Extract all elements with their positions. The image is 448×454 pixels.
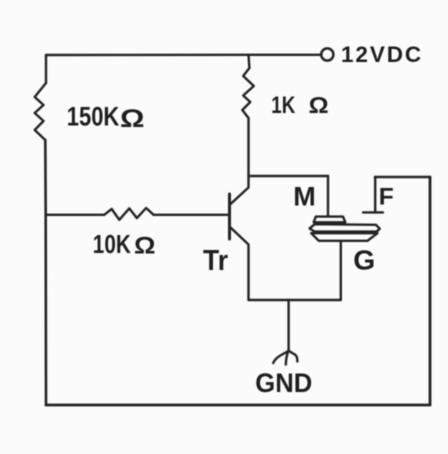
wire G lead xyxy=(340,241,342,300)
resistor 10K zigzag xyxy=(104,208,153,220)
wire M vertical lead xyxy=(327,176,329,216)
resistor 1K zigzag xyxy=(242,68,254,118)
ground symbol crow's foot right prong xyxy=(289,351,298,362)
transistor Tr emitter xyxy=(230,227,249,300)
svg-text:1K: 1K xyxy=(271,92,295,119)
wire collector node to M lead xyxy=(249,175,329,177)
wire bottom rail xyxy=(46,404,430,407)
wire base left segment xyxy=(46,214,104,216)
svg-text:M: M xyxy=(293,182,316,212)
wire base right segment xyxy=(154,214,230,216)
svg-text:12VDC: 12VDC xyxy=(341,42,423,67)
svg-text:Tr: Tr xyxy=(203,245,228,277)
svg-text:GND: GND xyxy=(255,368,312,398)
piezo bottom disc xyxy=(311,233,377,241)
svg-text:G: G xyxy=(353,245,375,276)
piezo middle disc xyxy=(310,224,380,231)
wire emitter bottom rail xyxy=(249,299,341,301)
svg-text:Ω: Ω xyxy=(309,92,329,118)
wire left vertical upper xyxy=(45,55,47,83)
node 12VDC terminal circle xyxy=(321,48,333,60)
ground symbol crow's foot left prong xyxy=(273,351,288,363)
piezo F feedback bar xyxy=(363,211,383,213)
wire top supply rail xyxy=(46,54,322,57)
resistor 150K zigzag xyxy=(35,83,46,140)
transistor Tr collector xyxy=(230,176,249,205)
svg-text:Ω: Ω xyxy=(120,105,145,133)
wire left vertical lower xyxy=(44,140,47,405)
wire top-right to F xyxy=(375,176,430,179)
wire 1K top lead xyxy=(247,55,250,68)
svg-text:150K: 150K xyxy=(67,102,120,132)
piezo top plate M electrode xyxy=(314,217,346,223)
svg-text:10K: 10K xyxy=(93,229,131,259)
svg-text:F: F xyxy=(379,184,394,211)
wire F lead xyxy=(374,177,376,212)
wire right vertical xyxy=(429,177,432,405)
transistor Tr base bar xyxy=(228,194,231,239)
svg-text:Ω: Ω xyxy=(134,232,156,259)
ground symbol crow's foot middle prong xyxy=(286,351,289,365)
wire 1K bottom lead to collector node xyxy=(247,118,249,176)
wire GND stem xyxy=(287,300,289,351)
